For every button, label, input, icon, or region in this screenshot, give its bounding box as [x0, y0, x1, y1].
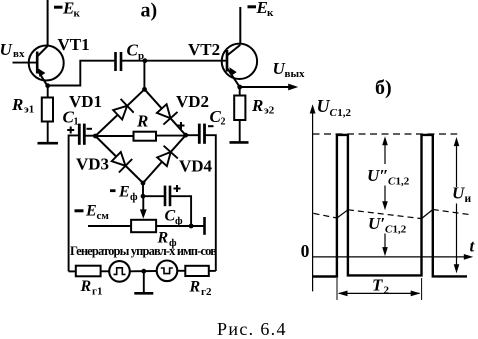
transistor VT2: [222, 44, 257, 87]
terminal bar under Re1: [38, 142, 59, 145]
wire bridge bottom down: [142, 183, 144, 196]
svg-text:C: C: [165, 208, 176, 225]
node at Cp output: [143, 58, 148, 63]
svg-text:U: U: [452, 184, 465, 203]
Cf plus sign: [174, 185, 181, 192]
output arrow Uvyx: [240, 86, 290, 88]
svg-text:C: C: [127, 41, 139, 60]
arrow node down to Rf: [142, 196, 144, 212]
svg-text:1,2: 1,2: [393, 224, 407, 236]
capacitor C1: [79, 124, 84, 145]
svg-text:2: 2: [384, 285, 390, 297]
svg-text:VD4: VD4: [179, 157, 213, 176]
diode VD2: [157, 104, 178, 124]
transistor VT1: [29, 46, 64, 87]
svg-text:T: T: [372, 276, 383, 295]
discharge dashed ramp 2: [348, 210, 422, 219]
svg-text:R: R: [80, 278, 92, 295]
svg-text:ф: ф: [130, 191, 138, 203]
power -Ef label: [110, 184, 138, 203]
power -Esm label: [75, 203, 110, 223]
label Rg1: [80, 278, 103, 298]
svg-text:U′: U′: [368, 214, 385, 233]
resistor Rg1: [76, 266, 101, 277]
wire Cf right plate to junction: [170, 196, 191, 226]
wire emitter down to Re1: [47, 86, 49, 98]
node Rf-Cf junction: [189, 224, 194, 229]
wire base lead VT1: [13, 62, 38, 64]
svg-text:E: E: [62, 0, 74, 18]
wire C2 to right rail: [205, 135, 216, 271]
resistor Rg2: [185, 266, 209, 276]
node Ef: [141, 194, 146, 199]
ground: [143, 271, 145, 292]
svg-text:C: C: [330, 107, 338, 119]
node bridge right: [183, 133, 188, 138]
T2 dimension arrows: [339, 292, 420, 294]
diode VD1: [113, 99, 134, 120]
wire Rf right to terminal: [156, 225, 204, 227]
label U'C1,2: [368, 214, 407, 236]
label Re1: [11, 95, 34, 116]
node VT2 emitter junction: [237, 85, 242, 90]
svg-text:t: t: [470, 237, 476, 256]
label Un: [452, 184, 472, 206]
svg-text:VD3: VD3: [76, 155, 109, 174]
svg-text:1,2: 1,2: [396, 176, 410, 188]
dimension U'C1,2 down arrow: [384, 234, 386, 253]
svg-text:0: 0: [301, 241, 310, 261]
wire Esm to Rf: [88, 225, 131, 227]
diode VD4: [157, 146, 178, 166]
capacitor Cp: [116, 52, 122, 71]
T2 extension line left: [336, 278, 338, 300]
wire C1 left plate to left rail: [69, 135, 80, 271]
capacitor C2: [199, 124, 204, 144]
svg-text:R: R: [136, 112, 148, 131]
label Uvyx: [273, 59, 306, 80]
svg-text:2: 2: [221, 117, 226, 128]
svg-text:E: E: [256, 0, 268, 17]
resistor R: [134, 132, 157, 141]
svg-text:R: R: [189, 279, 201, 296]
label Rf: [157, 230, 178, 250]
svg-text:и: и: [465, 193, 472, 205]
wire Re1 to common: [47, 122, 49, 144]
wire VT1 collector to -Ek: [47, 0, 49, 46]
svg-text:E: E: [85, 203, 97, 220]
diode bridge arms (wires): [95, 89, 185, 183]
wire bridge horizontal right: [156, 135, 186, 137]
label C1: [63, 108, 79, 128]
resistor Re1: [42, 98, 53, 122]
wire left rail to Rg1: [69, 270, 76, 272]
svg-text:э2: э2: [264, 105, 275, 117]
terminal bar under Re2: [230, 141, 249, 144]
waveform pulses: [313, 135, 467, 277]
svg-text:г1: г1: [92, 286, 103, 298]
wire C1 right plate to left node: [84, 135, 95, 137]
power -Ek left: [54, 0, 81, 20]
svg-text:U: U: [0, 40, 13, 59]
wire emitter down to Re2: [239, 87, 241, 96]
wire Re2 to common: [239, 120, 241, 142]
svg-text:а): а): [141, 0, 158, 22]
svg-text:VD2: VD2: [176, 92, 209, 111]
wire G1 to node: [129, 270, 157, 272]
svg-text:1: 1: [74, 117, 79, 128]
wire bridge horizontal left: [95, 135, 133, 137]
svg-text:R: R: [11, 95, 23, 114]
svg-text:вх: вх: [13, 48, 25, 60]
generator G2: [157, 261, 178, 282]
C1 minus sign: [87, 128, 93, 130]
VT1 emitter arrow: [38, 68, 45, 77]
label Cf: [165, 208, 184, 228]
label Cp: [127, 41, 145, 63]
svg-text:U: U: [317, 96, 331, 116]
svg-text:VD1: VD1: [69, 92, 102, 111]
power -Ek right: [248, 0, 275, 19]
node bridge left: [93, 134, 98, 139]
wire right node to C2: [186, 134, 200, 136]
wire emitter to Cp: [48, 61, 116, 86]
C2 plus sign: [178, 122, 185, 129]
svg-text:VT1: VT1: [58, 35, 90, 54]
discharge dashed ramp 1: [314, 213, 337, 218]
generator G1: [109, 261, 130, 282]
diode VD3: [112, 152, 133, 173]
terminal bar right of Rf: [203, 217, 206, 235]
recharge dashed ramp in pulse 2: [422, 210, 433, 219]
resistor Rf: [131, 220, 156, 232]
svg-text:э1: э1: [24, 104, 34, 116]
svg-text:к: к: [267, 7, 274, 19]
node ground junction: [141, 269, 146, 274]
svg-text:U″: U″: [367, 166, 389, 185]
svg-text:R: R: [251, 96, 263, 115]
VT2 emitter arrow: [229, 67, 236, 76]
node bridge top: [142, 87, 147, 92]
capacitor Cf: [165, 186, 170, 207]
dimension Un up arrow: [456, 141, 458, 187]
label Re2: [251, 96, 275, 117]
input Uvx label: [0, 40, 25, 60]
label Rg2: [189, 279, 212, 299]
wire node down to bridge top: [143, 61, 145, 90]
svg-text:Рис. 6.4: Рис. 6.4: [217, 319, 286, 339]
label T2: [372, 276, 390, 297]
dimension U''C1,2 up arrow: [384, 140, 386, 164]
recharge dashed ramp in pulse 1: [337, 210, 348, 218]
T2 extension line right: [421, 278, 423, 300]
svg-text:б): б): [375, 77, 392, 99]
wire node to Cf: [143, 195, 164, 197]
svg-text:VT2: VT2: [188, 40, 220, 59]
axis label U C1,2: [317, 96, 352, 119]
wire Rg2 to right rail: [209, 270, 216, 272]
svg-text:E: E: [118, 184, 130, 201]
svg-text:г2: г2: [201, 286, 212, 298]
label C2: [210, 107, 226, 128]
node VT1 emitter junction: [45, 83, 50, 88]
wire G2 to Rg2: [177, 270, 186, 272]
svg-text:к: к: [74, 8, 81, 20]
resistor Re2: [234, 96, 245, 121]
svg-text:вых: вых: [285, 68, 306, 80]
wire Rg1 to G1: [101, 270, 110, 272]
C1 plus sign: [67, 127, 74, 134]
svg-text:1,2: 1,2: [337, 107, 351, 119]
discharge dashed ramp 3: [433, 210, 471, 215]
svg-text:Генераторы управл-х имп-сов: Генераторы управл-х имп-сов: [70, 244, 217, 258]
dimension Un down arrow: [456, 204, 458, 270]
C2 minus sign: [208, 125, 214, 127]
wire VT2 collector to -Ek: [239, 7, 241, 45]
x axis: [313, 256, 468, 258]
y axis: [312, 107, 314, 291]
svg-text:см: см: [97, 210, 110, 222]
dimension U''C1,2 down arrow: [384, 186, 386, 207]
label U''C1,2: [367, 166, 410, 188]
node bridge bottom: [141, 181, 146, 186]
wire Cp to VT2 base: [121, 60, 227, 62]
top dashed level line: [313, 133, 458, 135]
